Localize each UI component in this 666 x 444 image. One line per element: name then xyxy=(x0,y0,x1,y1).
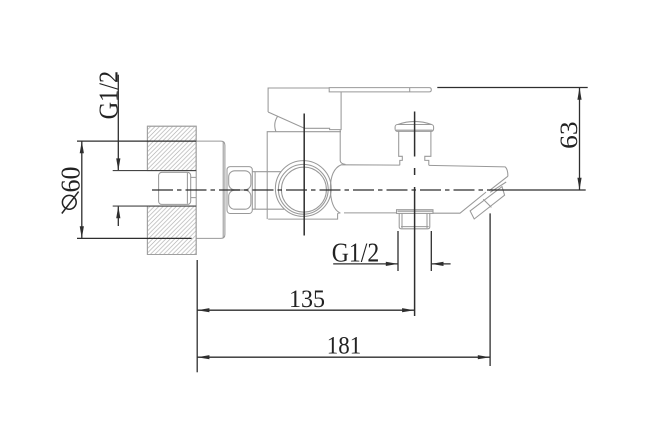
valve body circle outer xyxy=(275,161,331,217)
spout tip extension line xyxy=(489,213,491,366)
handle pivot arc xyxy=(275,116,278,131)
horizontal centerline xyxy=(152,189,500,191)
spout xyxy=(341,165,508,213)
wall face extension line xyxy=(196,260,198,372)
63 bottom extension line xyxy=(500,189,586,191)
wall hatching upper block xyxy=(147,126,196,254)
O60 extension lines xyxy=(77,140,196,142)
svg-text:60: 60 xyxy=(56,167,86,193)
inlet union xyxy=(255,172,284,210)
wall escutcheon plate xyxy=(196,141,225,238)
pipe hole edges / G1/2 extension lines xyxy=(113,171,197,207)
G1/2 top leader line xyxy=(116,75,120,226)
valve body / spout fillet arc xyxy=(330,165,341,213)
diverter knob brim xyxy=(395,125,434,132)
wall hatching lower block xyxy=(147,206,196,254)
eccentric hex nut xyxy=(227,167,252,214)
135 dimension line xyxy=(197,308,414,312)
svg-text:135: 135 xyxy=(289,286,325,313)
diverter knob cup xyxy=(399,131,431,165)
wall border xyxy=(147,126,196,254)
svg-text:G1/2: G1/2 xyxy=(332,238,380,268)
cartridge vertical centerline xyxy=(303,114,305,236)
diverter knob dome xyxy=(395,121,434,165)
O60 dimension line xyxy=(77,141,196,238)
handshower holder bracket xyxy=(470,187,505,219)
shower outlet barrel xyxy=(399,213,430,228)
63 top extension line xyxy=(437,87,587,89)
shower outlet flange xyxy=(397,210,434,229)
thread between nut and union xyxy=(252,172,255,210)
handle lever bar xyxy=(329,88,431,92)
svg-text:181: 181 xyxy=(327,332,362,359)
cartridge housing xyxy=(267,130,345,220)
valve body circle middle xyxy=(278,164,328,214)
G1/2 bottom dimension arrows xyxy=(333,231,450,271)
outlet vertical centerline xyxy=(414,112,416,317)
spout end chamfer xyxy=(489,176,508,192)
valve body circle inner xyxy=(281,167,326,212)
in-wall elbow fitting xyxy=(159,172,197,204)
elbow nipple xyxy=(191,177,197,197)
181 dimension line xyxy=(197,355,490,359)
spout underside xyxy=(344,192,486,213)
handle cap xyxy=(268,88,341,132)
outlet extension lines xyxy=(397,231,399,271)
63 dimension line xyxy=(437,88,587,191)
